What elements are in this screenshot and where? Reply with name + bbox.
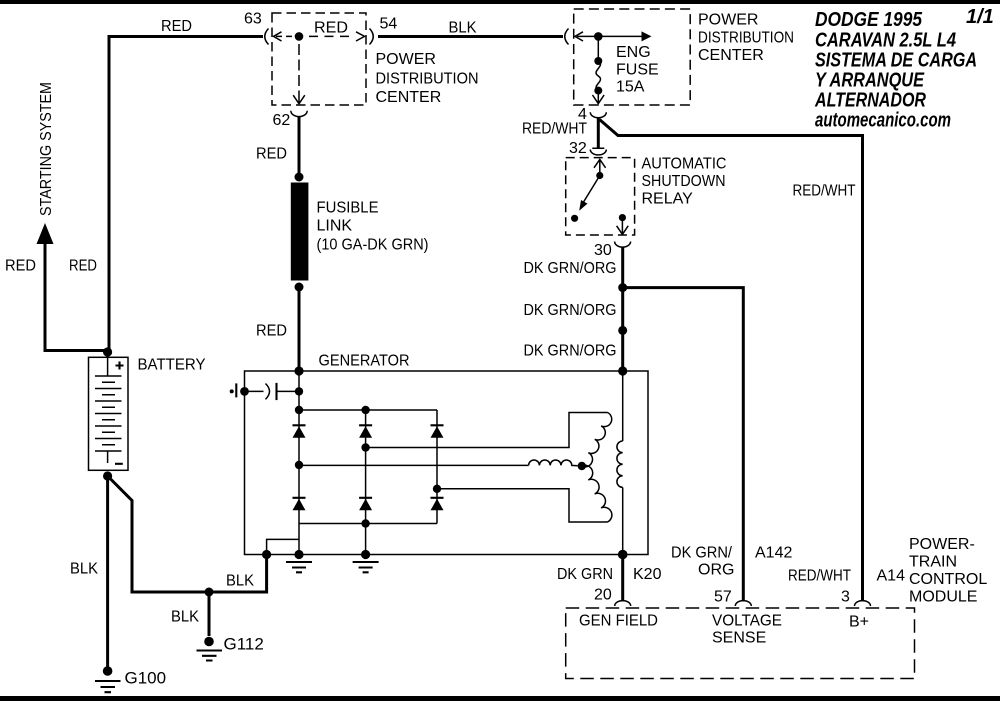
svg-text:(10 GA-DK GRN): (10 GA-DK GRN): [317, 237, 429, 254]
svg-text:B+: B+: [849, 614, 869, 631]
field output junction on generator bottom edge: [618, 550, 628, 560]
pin arrow down at node 4: [593, 91, 605, 104]
ground G112: [204, 637, 214, 647]
diode D4 (lower col1): [293, 498, 306, 511]
svg-text:BLK: BLK: [449, 20, 477, 37]
relay switch pivot: [596, 172, 603, 179]
svg-text:A142: A142: [755, 545, 792, 562]
svg-text:ALTERNADOR: ALTERNADOR: [814, 90, 926, 112]
svg-text:57: 57: [714, 589, 732, 606]
svg-text:RED/WHT: RED/WHT: [788, 568, 851, 585]
fuse top terminal dot: [594, 57, 602, 65]
rectifier bottom rail: [299, 523, 437, 525]
svg-text:RED: RED: [161, 18, 192, 35]
stator phase B tap junction: [361, 443, 369, 451]
ground G100: [103, 666, 113, 676]
svg-text:STARTING SYSTEM: STARTING SYSTEM: [38, 82, 55, 216]
svg-text:SENSE: SENSE: [712, 630, 766, 647]
junction bottom rail col2: [361, 519, 369, 527]
relay switch arm (to N.O. contact): [581, 176, 600, 208]
relay left contact: [571, 215, 578, 222]
battery: [89, 352, 129, 470]
field wire inside generator (upper): [622, 371, 624, 441]
wire RED/WHT from node 4 down to connector 32: [597, 118, 600, 148]
powertrain control module box (dashed): [566, 608, 915, 679]
internal dashed bus wire in box 1 (left to junction): [276, 35, 294, 37]
rectifier top rail: [299, 409, 437, 411]
node field junction on generator top edge: [618, 366, 627, 375]
battery + terminal mark: [116, 362, 124, 370]
svg-text:DK GRN/ORG: DK GRN/ORG: [524, 302, 617, 319]
internal dashed wire to node 54: [309, 35, 354, 37]
svg-text:BATTERY: BATTERY: [138, 357, 206, 374]
svg-text:SHUTDOWN: SHUTDOWN: [642, 173, 726, 190]
automatic shutdown relay box (dashed): [566, 158, 635, 235]
wire RED to starting system (from battery junction): [45, 243, 106, 351]
node B+ junction on generator top edge: [294, 366, 303, 375]
bottom border bar: [0, 696, 1000, 701]
splice junction to voltage sense branch: [618, 283, 627, 292]
battery bottom junction: [103, 471, 112, 480]
capacitor C1 (noise suppressor): [240, 387, 249, 396]
svg-text:62: 62: [273, 112, 291, 129]
diode D3 (upper col3): [431, 425, 444, 438]
svg-text:G112: G112: [224, 635, 264, 654]
pin arrow out at node 54 (points right): [356, 32, 365, 41]
svg-text:DK GRN/ORG: DK GRN/ORG: [524, 260, 617, 277]
svg-text:20: 20: [594, 587, 612, 604]
wire DK GRN/ORG branch to voltage sense (right then down): [623, 288, 744, 602]
wire RED/WHT from node 4 to B+ (diagonal, top run, right drop): [600, 120, 863, 602]
svg-text:automecanico.com: automecanico.com: [815, 110, 951, 132]
svg-text:POWER: POWER: [698, 12, 758, 29]
connector socket at node 54: [370, 29, 374, 45]
top border bar: [0, 0, 1000, 4]
svg-text:BLK: BLK: [171, 609, 199, 626]
svg-text:RED: RED: [314, 20, 348, 37]
field wire inside generator (lower): [622, 487, 624, 554]
generator case ground 1: [294, 550, 303, 559]
generator box: [245, 371, 649, 555]
junction top rail col2: [361, 406, 369, 414]
svg-text:DISTRIBUTION: DISTRIBUTION: [376, 71, 479, 88]
splice dot on field wire: [618, 326, 627, 335]
splice junction to G112: [205, 588, 214, 597]
svg-text:CENTER: CENTER: [698, 47, 764, 64]
pin arrow down at node 62: [293, 93, 305, 104]
svg-text:RED: RED: [256, 146, 287, 163]
connector 32 symbol: [590, 148, 606, 155]
junction top rail col1: [295, 406, 303, 414]
svg-text:54: 54: [380, 16, 398, 33]
svg-text:ENG: ENG: [616, 44, 651, 61]
wire BLK battery negative to G100: [106, 476, 109, 667]
battery - terminal mark: [115, 463, 123, 465]
wire DK GRN from generator to PCM pin 20: [621, 555, 624, 602]
stator phase B lead and winding L2: [366, 413, 608, 448]
svg-text:Y ARRANQUE: Y ARRANQUE: [815, 70, 925, 92]
junction BLK wire on generator case: [262, 550, 271, 559]
stator phase C lead and winding L3: [437, 489, 608, 522]
stator Y center junction: [578, 462, 586, 470]
stator phase A lead and winding L1: [299, 464, 529, 466]
fusible link body: [291, 183, 309, 281]
svg-text:63: 63: [244, 11, 262, 28]
junction dot in box 2: [594, 32, 603, 41]
pin 57 cavity on PCM: [735, 601, 751, 606]
wire BLK from node 54 to PDC2: [378, 35, 563, 38]
connector cavity at node 4: [590, 112, 606, 118]
pin arrow into box 2 (points left): [575, 32, 583, 41]
svg-text:G100: G100: [125, 669, 167, 688]
connector socket at box 2 entry: [565, 29, 569, 45]
connector socket at node 63: [265, 29, 269, 45]
svg-text:RED: RED: [69, 258, 97, 275]
svg-text:POWER: POWER: [376, 51, 436, 68]
svg-text:RELAY: RELAY: [642, 191, 694, 208]
pin 3 cavity on PCM: [855, 601, 871, 606]
fuse bottom terminal dot: [594, 87, 602, 95]
internal dashed wire down to node 62: [298, 44, 300, 93]
rotor field winding L4: [617, 441, 623, 487]
svg-text:DISTRIBUTION: DISTRIBUTION: [698, 30, 794, 47]
svg-text:BLK: BLK: [70, 561, 98, 578]
rectifier column 2: [365, 410, 367, 555]
pin arrow into box 1 (points left): [274, 32, 282, 41]
ENG FUSE 15A element (wavy): [596, 61, 600, 91]
pin arrow down at node 30: [617, 218, 629, 235]
connector cavity at node 30: [615, 242, 631, 248]
internal wire to junction and feed arrow right: [577, 35, 643, 37]
wire RED from node 63 to battery (top horizontal + left vertical): [109, 37, 263, 353]
junction dot at fusible link top: [295, 173, 304, 182]
generator case ground 2: [361, 550, 370, 559]
wire BLK battery negative to generator case: [108, 476, 267, 592]
rectifier column 3: [436, 410, 438, 524]
relay right contact (to pin 30): [619, 214, 626, 221]
svg-text:DK GRN/ORG: DK GRN/ORG: [524, 343, 617, 360]
case ground mark (outside left edge): [230, 389, 234, 393]
power distribution center box 2 (dashed): [574, 9, 691, 105]
diode D1 (upper col1): [293, 425, 306, 438]
case ground jog wire (BLK to diode ground): [267, 539, 299, 554]
svg-text:32: 32: [569, 140, 587, 157]
svg-text:3: 3: [841, 589, 850, 606]
svg-text:GEN FIELD: GEN FIELD: [579, 613, 658, 630]
wire DK GRN/ORG from relay 30 down to generator: [621, 247, 624, 371]
feed arrow head (filled, points right): [642, 31, 652, 41]
svg-text:FUSIBLE: FUSIBLE: [317, 200, 379, 217]
svg-text:GENERATOR: GENERATOR: [319, 353, 410, 370]
rectifier column 1 (B+ line): [298, 371, 300, 555]
svg-text:BLK: BLK: [226, 573, 254, 590]
capacitor to B+ column junction: [295, 387, 303, 395]
svg-text:DK GRN/: DK GRN/: [671, 545, 733, 562]
svg-text:30: 30: [594, 242, 612, 259]
svg-text:RED/WHT: RED/WHT: [793, 183, 856, 200]
wire RED from node 62 down to fusible link: [298, 117, 301, 177]
diode D2 (upper col2): [359, 425, 372, 438]
svg-text:LINK: LINK: [317, 218, 353, 235]
svg-text:FUSE: FUSE: [616, 62, 659, 79]
svg-text:RED/WHT: RED/WHT: [522, 121, 587, 138]
svg-text:15A: 15A: [616, 79, 645, 96]
svg-text:MODULE: MODULE: [909, 589, 977, 606]
diode D5 (lower col2): [359, 498, 372, 511]
junction in box 1: [295, 32, 304, 41]
wire RED from fusible link to generator: [298, 287, 301, 371]
svg-text:K20: K20: [633, 566, 662, 583]
diode D6 (lower col3): [431, 498, 444, 511]
svg-text:TRAIN: TRAIN: [909, 554, 957, 571]
svg-text:RED: RED: [256, 323, 287, 340]
wire from junction down to fuse: [597, 36, 599, 61]
svg-text:CONTROL: CONTROL: [909, 571, 987, 588]
stator phase A tap junction: [295, 461, 303, 469]
arrow to STARTING SYSTEM: [37, 223, 54, 244]
svg-text:CARAVAN 2.5L L4: CARAVAN 2.5L L4: [815, 30, 956, 52]
junction dot at fusible link bottom: [295, 283, 304, 292]
svg-text:ORG: ORG: [698, 562, 734, 579]
svg-text:VOLTAGE: VOLTAGE: [712, 613, 782, 630]
svg-text:DODGE 1995: DODGE 1995: [815, 9, 923, 31]
stator phase C tap junction: [433, 485, 441, 493]
pin 20 cavity on PCM: [615, 601, 631, 606]
wire BLK to G112: [208, 592, 211, 636]
svg-text:AUTOMATIC: AUTOMATIC: [642, 156, 727, 173]
svg-text:A14: A14: [877, 568, 906, 585]
connector cavity at node 62: [291, 111, 307, 117]
svg-text:DK GRN: DK GRN: [557, 566, 613, 583]
svg-text:CENTER: CENTER: [376, 89, 442, 106]
svg-text:SISTEMA DE CARGA: SISTEMA DE CARGA: [815, 50, 977, 72]
relay coil-side pin arrow (points up into box): [594, 159, 606, 175]
svg-text:1/1: 1/1: [966, 6, 994, 28]
svg-text:RED: RED: [5, 258, 36, 275]
svg-text:POWER-: POWER-: [909, 536, 975, 553]
battery top junction: [103, 347, 112, 356]
power distribution center box 1 (dashed): [272, 13, 366, 105]
